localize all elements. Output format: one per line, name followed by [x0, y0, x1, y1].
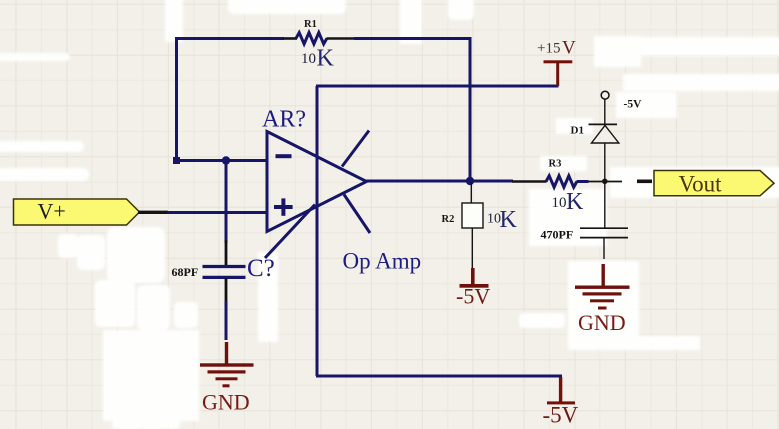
resistor R3	[512, 176, 622, 187]
port Vout	[654, 171, 774, 197]
wire: op-amp output	[365, 180, 513, 183]
svg-text:-5V: -5V	[456, 284, 490, 309]
op-amp offset pin (bottom-left diagonal)	[265, 205, 315, 259]
power symbol +15V	[537, 38, 576, 87]
svg-text:+15: +15	[537, 41, 560, 57]
port V+	[14, 199, 140, 226]
svg-text:K: K	[566, 189, 584, 215]
svg-text:V: V	[562, 38, 576, 59]
svg-text:Op Amp: Op Amp	[343, 249, 422, 274]
svg-text:K: K	[317, 46, 335, 72]
svg-text:K: K	[500, 207, 518, 233]
svg-text:GND: GND	[578, 310, 626, 335]
value 10K (R1)	[301, 46, 335, 72]
svg-text:470PF: 470PF	[541, 228, 574, 242]
svg-text:AR?: AR?	[262, 107, 306, 133]
diode D1	[589, 99, 619, 143]
svg-text:-5V: -5V	[624, 99, 643, 111]
node: diode junction dot	[602, 179, 608, 185]
wire: right vertical down to output node	[469, 37, 472, 182]
svg-text:Vout: Vout	[679, 172, 723, 197]
wire: C? cap pin (black)	[225, 278, 228, 302]
node: inverting wire end dot	[173, 157, 180, 164]
wire: output stub to Vout port	[637, 180, 652, 184]
svg-text:10: 10	[552, 195, 567, 211]
svg-text:V+: V+	[38, 199, 66, 224]
resistor R2	[462, 182, 483, 269]
wire: R1 to top-right corner	[354, 37, 472, 40]
power symbol -5V (under R2)	[456, 268, 490, 309]
wire: power rail vertical through op-amp	[316, 86, 319, 376]
node: compensation cap junction dot	[222, 156, 230, 164]
wire: top rail to +15V	[316, 85, 559, 88]
op-amp power pin (bottom diagonal)	[344, 195, 370, 234]
wire: diode to output wire	[604, 143, 606, 181]
wire: feedback top horizontal (left of R1)	[175, 37, 284, 40]
op-amp U1 triangle (AR?)	[267, 132, 367, 232]
node: output junction dot	[466, 177, 474, 185]
terminal circle (-5V supply for D1)	[601, 91, 609, 99]
svg-text:R3: R3	[549, 159, 562, 170]
svg-text:D1: D1	[571, 125, 584, 137]
svg-text:R1: R1	[304, 19, 317, 30]
value 10K (R3)	[552, 189, 585, 215]
wire: feedback vertical (left side)	[175, 37, 178, 161]
op-amp power pin (top diagonal)	[342, 131, 369, 167]
ground GND (left)	[200, 342, 254, 415]
power symbol -5V (bottom rail)	[543, 377, 579, 428]
svg-text:R2: R2	[442, 214, 455, 225]
svg-text:C?: C?	[247, 255, 275, 282]
capacitor C? (68PF)	[203, 267, 246, 278]
svg-text:-5V: -5V	[543, 403, 579, 428]
wire: junction down to capacitor C?	[225, 161, 228, 244]
value 10K (R2)	[487, 207, 518, 233]
wire: junction down to 470PF	[604, 181, 606, 228]
wire: V+ to non-inverting input	[167, 211, 266, 214]
capacitor 470PF	[580, 228, 628, 259]
ground GND (right)	[575, 264, 630, 335]
resistor R1	[283, 33, 355, 44]
wire: inverting input	[176, 159, 266, 162]
svg-text:68PF: 68PF	[172, 265, 199, 279]
wire: bottom rail to -5V	[316, 375, 562, 378]
wire: V+ port lead (black)	[138, 211, 168, 214]
svg-text:10: 10	[301, 51, 316, 67]
wire: cap to ground (navy)	[225, 301, 228, 340]
svg-text:GND: GND	[202, 390, 250, 415]
